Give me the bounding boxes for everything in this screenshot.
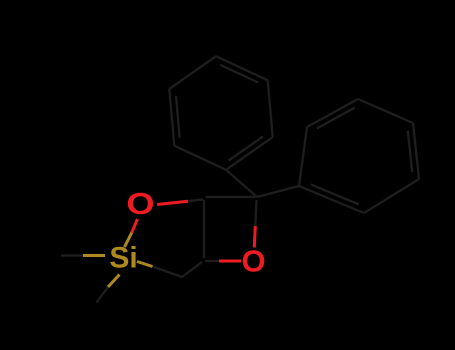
right phenyl inner double bond 1 [317, 108, 355, 129]
Si lower-left methyl dark half [97, 287, 109, 303]
left phenyl ring edge 4 [216, 56, 268, 80]
Si left methyl dark half [61, 254, 83, 256]
svg-text:O: O [126, 187, 154, 222]
bond Si-O2 olive half [125, 233, 132, 248]
bond Si-O2 red half [132, 219, 138, 233]
bond CH2-C4 [182, 262, 202, 277]
left phenyl inner double bond 3 [220, 65, 258, 83]
oxetane left bond C3-C4 [203, 200, 205, 258]
oxetane right bond C2-O1 red half [254, 226, 255, 248]
right phenyl ring edge 2 [307, 99, 358, 127]
oxetane bottom bond C4-O1 red half [219, 260, 241, 263]
oxygen O2 (silyl ether O) label [126, 187, 154, 222]
oxetane right bond C2-O1 dark half [255, 200, 256, 226]
right phenyl ring edge 1 [299, 127, 307, 186]
left phenyl inner double bond 1 [176, 96, 180, 138]
bond O2-C3 red half [157, 201, 188, 204]
Si left methyl olive half [83, 254, 105, 257]
bond C2-left phenyl ipso [226, 170, 257, 197]
bond C2-right phenyl ipso [257, 186, 299, 197]
left phenyl ring edge 3 [169, 56, 216, 89]
svg-text:Si: Si [109, 242, 137, 275]
Si lower-left methyl olive half [108, 275, 120, 288]
left phenyl ring edge 1 [174, 146, 226, 170]
oxetane top bond C3-C2 [206, 196, 255, 198]
bond Si-CH2 dark half [153, 267, 183, 278]
right phenyl ring edge 4 [413, 123, 419, 179]
right phenyl inner double bond 5 [311, 184, 359, 204]
right phenyl ring edge 5 [364, 179, 419, 213]
right phenyl ring edge 3 [358, 99, 413, 123]
left phenyl ring edge 6 [226, 137, 273, 170]
right phenyl ring edge 6 [299, 186, 364, 213]
right phenyl inner double bond 3 [408, 131, 412, 172]
left phenyl inner double bond 5 [229, 136, 264, 160]
left phenyl ring edge 5 [268, 80, 273, 137]
svg-text:O: O [241, 244, 265, 279]
bond O2-C3 dark half [188, 200, 203, 202]
left phenyl ring edge 2 [169, 89, 174, 146]
oxetane bottom bond C4-O1 dark half [205, 260, 219, 262]
bond Si-CH2 olive half [137, 262, 153, 267]
